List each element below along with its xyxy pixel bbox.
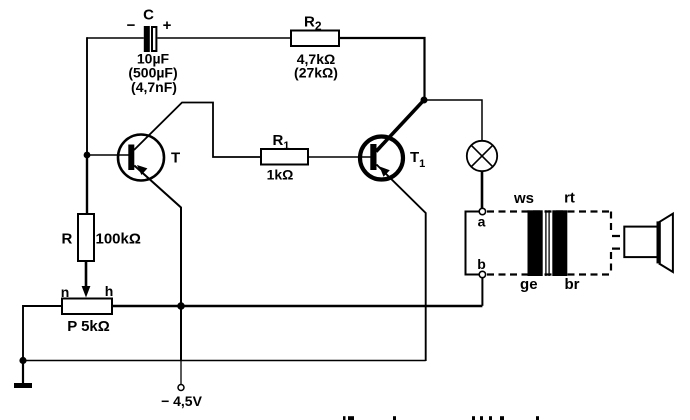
wire left rail base node to resistor R [86,155,88,214]
svg-text:C: C [143,7,154,24]
wire R to potentiometer wiper with arrow [85,261,88,288]
svg-text:100kΩ: 100kΩ [96,231,141,248]
speaker box [624,227,658,258]
transistor T1 circle (bold) [360,137,403,180]
svg-text:b: b [477,256,486,272]
terminal b [479,271,485,277]
node ground (junction dot) [19,357,26,364]
svg-text:T: T [171,150,180,167]
wire potentiometer right to terminal b node [112,305,482,308]
transistor T1 emitter arrow (PNP) [380,167,390,177]
potentiometer P body [62,299,112,315]
svg-text:a: a [478,214,486,230]
transistor T collector wire up to R1 path [134,103,261,158]
svg-text:1kΩ: 1kΩ [267,167,294,183]
node base of T (junction dot) [84,152,91,159]
ground symbol bar [14,383,32,388]
capacitor C plates [144,26,150,52]
node T1 collector (junction dot) [421,97,428,104]
wire potentiometer left to ground rail [23,306,62,361]
speaker driver bar [657,221,661,263]
svg-text:ge: ge [520,276,538,293]
svg-text:ws: ws [513,190,534,207]
svg-text:rt: rt [564,190,575,207]
wire node to lamp [424,100,482,141]
terminal -4,5V [178,385,184,391]
wire R1 to T1 base [308,156,371,158]
svg-text:−: − [127,17,136,34]
transistor T1 collector bold wire to node [376,100,424,151]
svg-text:R: R [62,231,73,248]
transistor T emitter wire down [134,166,181,362]
caption fragments at bottom edge [343,416,539,420]
transformer core lines [546,210,549,276]
transistor T emitter arrow (PNP) [137,165,147,175]
svg-text:P 5kΩ: P 5kΩ [67,318,110,335]
node T emitter junction dot [177,302,185,310]
ground stub [22,361,24,384]
resistor R [78,214,94,261]
svg-text:(4,7nF): (4,7nF) [131,79,177,95]
wire left rail upper (corner down to base node) [86,37,88,155]
wire top-left horizontal from corner to capacitor [87,37,144,39]
svg-text:(27kΩ): (27kΩ) [294,65,338,81]
svg-text:n: n [61,284,70,300]
wire terminal b down to bottom wire [481,278,483,306]
transformer secondary winding bar [552,210,567,276]
svg-text:br: br [565,276,580,293]
transistor T base bar [128,145,134,171]
wire capacitor to R2 [158,37,292,39]
svg-text:h: h [105,283,114,299]
speaker cone [659,214,673,272]
wire junction to -4,5V terminal (thin) [180,361,182,385]
wire base of T [87,154,129,156]
svg-text:− 4,5V: − 4,5V [161,393,203,409]
terminal a [479,208,485,214]
transformer secondary stub wires to speaker [612,236,624,249]
svg-text:+: + [163,17,172,34]
transistor T circle [118,135,164,181]
transistor T1 emitter wire down [377,165,426,362]
lamp (circle with X) [467,141,497,171]
transformer primary winding bar [528,210,543,276]
transistor T1 base bar [370,144,376,170]
transformer dashed box [487,212,611,275]
resistor R1 [261,149,308,165]
wire R2 right to corner and down to node [339,38,425,100]
wire lamp to terminal a [481,171,484,208]
resistor R2 [291,31,339,47]
wire bracket connecting a and b [466,212,480,275]
wire bottom rail [23,360,426,362]
